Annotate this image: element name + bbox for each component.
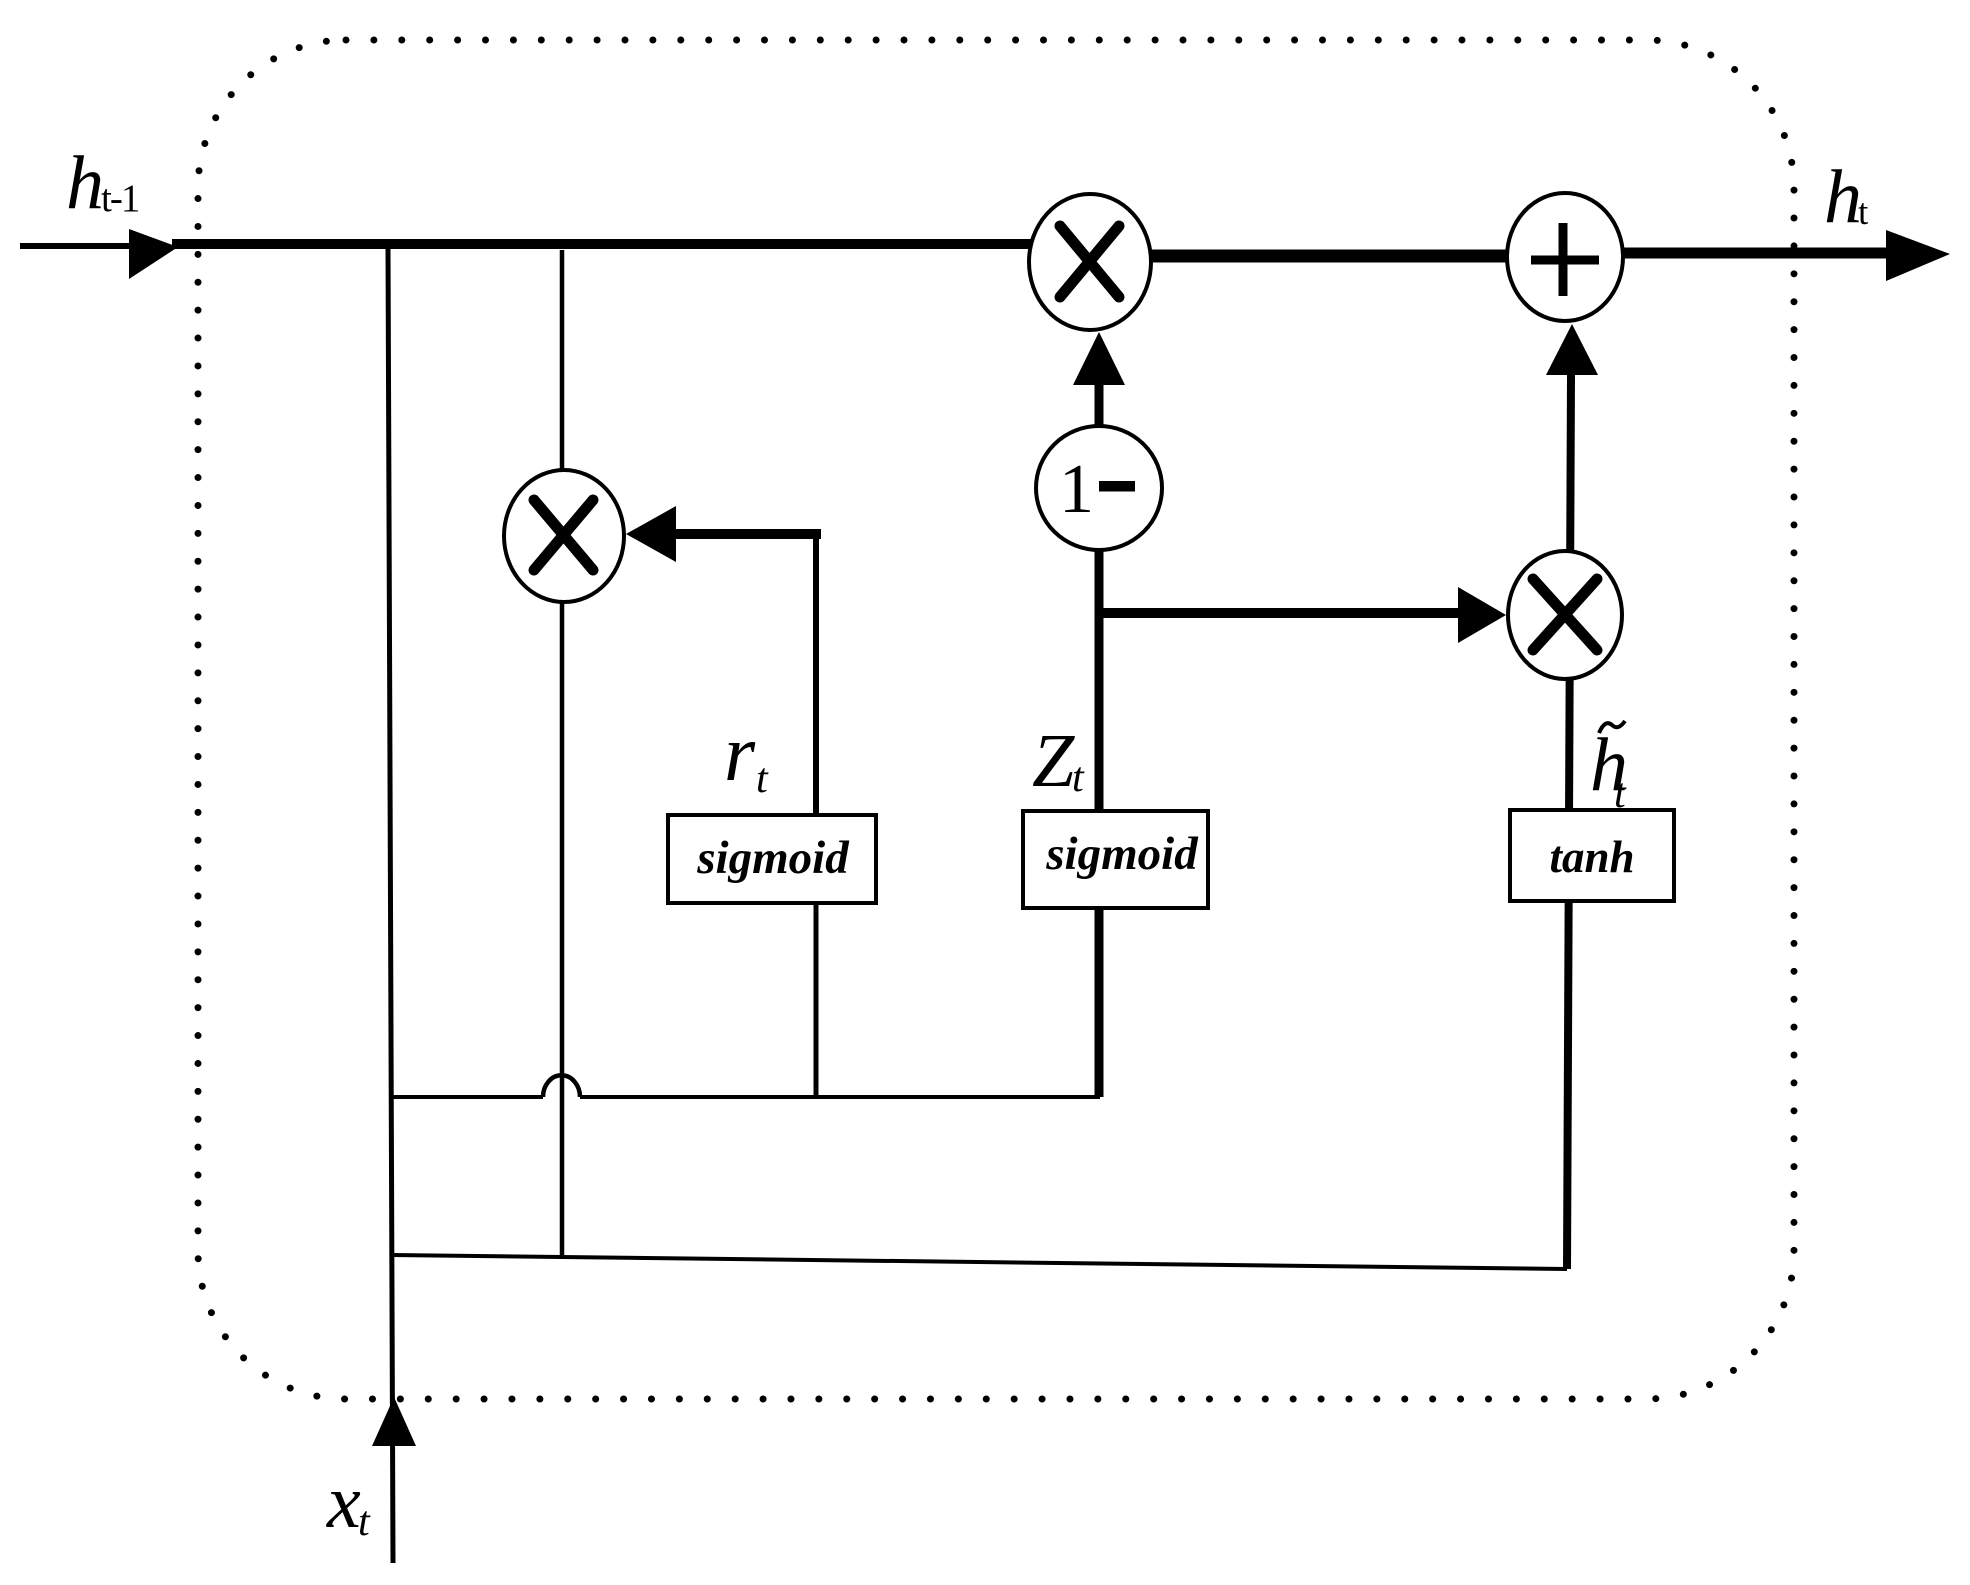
wire h main line segment A <box>172 239 1090 249</box>
wire h main line segment C <box>1565 248 1888 259</box>
adder on main line <box>1507 193 1623 321</box>
sigmoid box z <box>1023 811 1208 908</box>
arrowhead h_{t-1} input <box>129 229 178 279</box>
arrowhead into adder <box>1546 324 1598 375</box>
wire hop over vertical <box>543 1075 580 1097</box>
arrowhead into candidate multiplier <box>1458 587 1506 643</box>
sigmoid box r <box>668 815 876 903</box>
wire h branch vertical to reset multiplier (x=562) <box>560 250 565 1255</box>
multiplier on main line <box>1029 194 1151 330</box>
arrowhead h_t output <box>1886 230 1950 281</box>
wire x_t vertical (x=390) <box>388 246 393 1563</box>
svg-text:t: t <box>756 756 769 802</box>
svg-text:t-1: t-1 <box>101 177 139 220</box>
label h~_t <box>1590 721 1628 817</box>
arrowhead x_t input <box>372 1397 416 1446</box>
svg-text:h: h <box>1824 155 1862 239</box>
svg-text:tanh: tanh <box>1549 832 1634 882</box>
one-minus node <box>1036 426 1162 550</box>
wire bottom bus 1 right segment <box>580 1095 1100 1099</box>
svg-text:t: t <box>1614 771 1627 817</box>
label x_t <box>326 1460 371 1545</box>
arrowhead into reset multiplier <box>626 506 676 562</box>
label r_t <box>724 710 769 802</box>
svg-text:sigmoid: sigmoid <box>1045 828 1199 880</box>
wire r_t horizontal into reset multiplier <box>672 529 821 539</box>
svg-text:h: h <box>66 141 104 225</box>
svg-text:t: t <box>1858 192 1869 233</box>
wire 1-z branch horizontal <box>1099 608 1460 618</box>
reset multiplier <box>504 470 624 602</box>
label h_t <box>1824 155 1869 239</box>
dotted GRU cell border <box>198 40 1794 1399</box>
wire r_t vertical <box>813 529 819 817</box>
svg-text:Z: Z <box>1032 719 1075 803</box>
svg-text:t: t <box>358 1499 371 1545</box>
wire z_t vertical chain <box>1095 383 1104 1097</box>
candidate multiplier <box>1508 551 1622 679</box>
wire h~ vertical chain <box>1567 375 1571 1269</box>
svg-text:1: 1 <box>1059 451 1094 528</box>
tanh box <box>1510 810 1674 901</box>
svg-text:x: x <box>326 1460 361 1544</box>
svg-text:t: t <box>1072 755 1085 801</box>
wire h main line segment B <box>1090 250 1565 263</box>
wire h_{t-1} input thin <box>20 243 132 249</box>
label h_{t-1} <box>66 141 139 225</box>
wire bottom bus 1 left segment <box>391 1095 543 1099</box>
wire bottom bus 2 <box>391 1255 1567 1269</box>
wire r_t below sigmoid box <box>814 900 819 1097</box>
arrowhead into top multiplier <box>1073 332 1125 385</box>
svg-text:sigmoid: sigmoid <box>696 832 850 884</box>
label Z_t <box>1032 719 1085 803</box>
svg-text:r: r <box>724 710 756 798</box>
